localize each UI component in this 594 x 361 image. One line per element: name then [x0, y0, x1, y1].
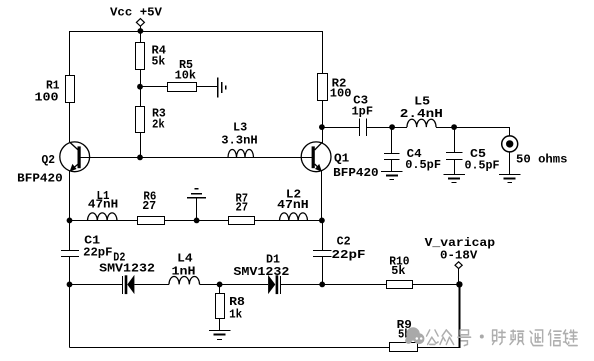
wire R8 stem top — [219, 284, 221, 293]
wire left rail top (to R1) — [69, 31, 71, 76]
wire collector node to C3 — [322, 127, 359, 129]
wire C5 stem top — [454, 127, 456, 152]
transistor Q1 — [301, 142, 331, 172]
node A (R4/R3/R5) — [137, 84, 143, 90]
junction R2/C3/Q1 collector — [319, 124, 325, 130]
svg-text:1k: 1k — [229, 308, 243, 322]
wire L1 node to C1 — [69, 220, 71, 250]
wire Q1 emitter down to L2 node — [321, 171, 323, 221]
svg-text:27: 27 — [236, 201, 249, 215]
wire left rail bottom — [69, 284, 71, 347]
resistor R4 — [136, 43, 145, 70]
transistor Q2 — [60, 142, 90, 172]
wire C3 to L5 node — [367, 127, 393, 129]
Vcc +5V terminal — [136, 19, 144, 27]
svg-text:Vcc +5V: Vcc +5V — [110, 5, 163, 19]
svg-text:0.5pF: 0.5pF — [405, 158, 441, 172]
wire D2 to L4 — [134, 284, 169, 286]
svg-text:27: 27 — [142, 199, 156, 213]
resistor R10 — [387, 281, 413, 289]
wire D1 to C2 node — [280, 284, 322, 286]
watermark — [405, 327, 577, 345]
svg-text:0.5pF: 0.5pF — [465, 159, 500, 173]
svg-text:Q1: Q1 — [334, 151, 349, 165]
wire collector node to Q1 — [322, 127, 324, 143]
wire varicap terminal stem — [458, 269, 460, 285]
inductor L2 — [280, 213, 308, 221]
resistor R9 — [390, 343, 418, 352]
svg-text:22pF: 22pF — [83, 246, 112, 260]
capacitor C5 — [446, 152, 462, 154]
svg-text:47nH: 47nH — [88, 198, 118, 212]
wire L4 to R8 node — [200, 284, 220, 286]
svg-text:SMV1232: SMV1232 — [233, 265, 289, 279]
wire C4 stem top — [391, 127, 393, 154]
junction right rail bias row — [319, 218, 325, 224]
wire top right rail (to R2) — [322, 31, 324, 74]
resistor R7 — [229, 217, 255, 225]
wire bottom left (to R9) — [70, 347, 390, 349]
junction L5/C5/output — [451, 124, 457, 130]
wire connector to ground — [509, 152, 511, 175]
wire base line Q2-Q1 — [81, 157, 312, 159]
wire C4 stem bottom — [391, 160, 393, 171]
junction left rail bias row — [67, 218, 73, 224]
svg-text:50 ohms: 50 ohms — [516, 152, 568, 166]
wire L5 to output node — [436, 127, 454, 129]
junction bias ground — [194, 218, 200, 224]
svg-text:Q2: Q2 — [42, 153, 56, 167]
ground below C4 — [381, 171, 403, 173]
junction R10/V_varicap — [456, 281, 462, 287]
junction C3/L5/C4 — [389, 124, 395, 130]
wire R8 node to D1 — [220, 284, 268, 286]
svg-text:10k: 10k — [175, 69, 197, 83]
wire node A to R5 — [140, 86, 167, 88]
wire C1 to D2 node — [69, 256, 71, 284]
inductor L4 — [169, 276, 200, 284]
wire C2 to D1 node — [322, 256, 324, 284]
wire C5 stem bottom — [454, 159, 456, 175]
junction Vcc — [138, 28, 144, 34]
inductor L5 — [407, 119, 436, 127]
junction L4/R8/D1 — [217, 282, 223, 288]
svg-text:5k: 5k — [152, 54, 166, 68]
wire connector drop — [509, 127, 511, 136]
svg-text:100: 100 — [35, 91, 59, 105]
wire L2 node to C2 — [322, 220, 324, 250]
ground below C5 — [443, 174, 465, 176]
varactor diode D2 — [123, 275, 135, 294]
svg-text:5k: 5k — [391, 264, 406, 278]
svg-text:BFP420: BFP420 — [17, 172, 63, 186]
inductor L3 — [228, 149, 254, 157]
wire output node to connector — [454, 127, 510, 129]
output port 50 ohms — [502, 136, 518, 152]
wire R10 to varicap node — [413, 284, 460, 286]
wire bias row L1-L2 — [70, 220, 322, 222]
wire C2 node to R10 — [322, 284, 386, 286]
wire bottom right (R9 to corner) — [417, 347, 460, 349]
wire varicap rail down — [458, 284, 460, 348]
wire R4 to node A — [140, 70, 142, 88]
wire R3 to base line — [140, 132, 142, 157]
resistor R2 — [318, 74, 328, 101]
svg-text:2.4nH: 2.4nH — [400, 107, 443, 121]
wire Vcc top rail — [70, 31, 323, 33]
svg-text:1nH: 1nH — [172, 264, 196, 278]
svg-text:100: 100 — [330, 86, 352, 100]
wire Vcc stem — [140, 26, 142, 31]
wire R5 to ground — [196, 86, 218, 88]
resistor R3 — [136, 107, 145, 133]
svg-text:1pF: 1pF — [352, 105, 374, 119]
capacitor C4 — [384, 153, 400, 155]
ground below 50 ohm port — [499, 174, 521, 176]
wire R2 to collector node — [322, 101, 324, 128]
varactor diode D1 — [268, 275, 280, 294]
resistor R8 — [216, 294, 225, 319]
capacitor C1 — [61, 250, 79, 252]
wire R8 stem bottom — [219, 318, 221, 330]
svg-text:SMV1232: SMV1232 — [99, 262, 155, 276]
resistor R5 — [168, 83, 197, 92]
wire mid ground stem — [196, 197, 198, 220]
wire L5 node to L5 — [393, 127, 407, 129]
inductor L1 — [88, 213, 117, 221]
V_varicap terminal — [455, 262, 462, 269]
wire R1 to Q2 collector — [69, 102, 71, 142]
junction left rail varicap row — [67, 282, 73, 288]
wire Q2 emitter down to L1 node — [69, 171, 71, 221]
resistor R1 — [66, 76, 75, 103]
junction D1/C2/R10 — [319, 282, 325, 288]
junction R3 base line — [137, 155, 143, 161]
svg-text:3.3nH: 3.3nH — [221, 133, 258, 147]
resistor R6 — [138, 217, 165, 225]
wire node A to R3 — [140, 87, 142, 107]
capacitor C3 — [359, 118, 361, 136]
wire varicap row left — [70, 284, 123, 286]
svg-text:BFP420: BFP420 — [333, 166, 378, 180]
ground at R5 — [217, 77, 219, 97]
capacitor C2 — [313, 250, 331, 252]
svg-text:C2: C2 — [337, 234, 351, 248]
svg-text:22pF: 22pF — [332, 248, 366, 262]
wire Vcc to R4 — [140, 31, 142, 42]
svg-text:0-18V: 0-18V — [440, 249, 478, 263]
ground above bias row — [187, 197, 206, 199]
svg-text:L3: L3 — [233, 120, 247, 134]
svg-text:2k: 2k — [152, 117, 165, 131]
svg-text:47nH: 47nH — [277, 198, 309, 212]
ground below R8 — [209, 330, 231, 332]
